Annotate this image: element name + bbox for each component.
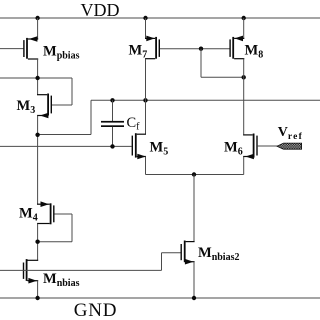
wire feedback net to M5 gate bbox=[0, 145, 132, 147]
svg-text:M3: M3 bbox=[17, 98, 36, 116]
wire GND rail bbox=[0, 297, 320, 299]
transistor M6 bbox=[243, 134, 258, 160]
svg-text:Mnbias: Mnbias bbox=[43, 271, 80, 289]
node M4 drain junction dot bbox=[35, 240, 39, 244]
svg-text:VDD: VDD bbox=[81, 0, 120, 20]
node Cf top junction bbox=[110, 98, 114, 102]
wire M7-M8 gate net bbox=[160, 48, 230, 50]
wire Mpbias source to node A bbox=[37, 59, 39, 95]
transistor M3 bbox=[37, 94, 52, 119]
node M7 drain junction bbox=[143, 98, 147, 102]
svg-text:M6: M6 bbox=[224, 140, 243, 158]
wire Mpbias gate stub bbox=[0, 48, 24, 50]
node VDD junction at M8 bbox=[242, 16, 246, 20]
capacitor Cf bbox=[101, 121, 124, 127]
svg-text:M5: M5 bbox=[150, 140, 169, 158]
wire M3 drain down to M4 bbox=[37, 116, 39, 205]
wire M4 source down bbox=[37, 224, 39, 261]
svg-text:M4: M4 bbox=[19, 206, 38, 224]
svg-text:Mpbias: Mpbias bbox=[43, 44, 80, 62]
node M8 drain junction bbox=[242, 75, 246, 79]
svg-text:M7: M7 bbox=[129, 43, 148, 61]
wire node A stub to left edge bbox=[0, 77, 38, 79]
node gate net junction bbox=[199, 47, 203, 51]
wire M8 drain from VDD bbox=[243, 18, 245, 38]
svg-text:Cf: Cf bbox=[127, 115, 141, 133]
transistor Mnbias bbox=[23, 259, 38, 283]
wire M6 drain down to tail bbox=[243, 157, 245, 175]
wire M4 gate bbox=[54, 213, 72, 215]
wire M7 source down bbox=[145, 59, 147, 134]
node M3 drain junction dot bbox=[35, 133, 39, 137]
wire Mnbias2 gate horizontal bbox=[162, 252, 181, 254]
svg-text:Mnbias2: Mnbias2 bbox=[198, 245, 239, 263]
wire M3 gate bbox=[52, 104, 72, 106]
wire M7 drain from VDD bbox=[145, 18, 147, 38]
wire Mpbias drain from VDD bbox=[37, 18, 39, 39]
wire gate net branch horizontal bbox=[201, 76, 244, 78]
node A junction dot bbox=[35, 76, 39, 80]
transistor M4 bbox=[37, 201, 55, 224]
transistor M8 bbox=[229, 36, 244, 59]
wire Mnbias2 gate vertical bbox=[161, 253, 163, 271]
wire riser to top net bbox=[90, 100, 92, 134]
wire M4 diode loop vertical bbox=[71, 214, 73, 242]
wire M3 drain node horizontal bbox=[38, 134, 91, 136]
node GND junction right bbox=[192, 296, 196, 300]
node Cf bottom junction bbox=[110, 144, 114, 148]
wire M5 drain down to tail bbox=[145, 157, 147, 175]
svg-text:Vref: Vref bbox=[278, 125, 303, 142]
transistor M7 bbox=[145, 36, 160, 59]
svg-text:GND: GND bbox=[74, 300, 118, 320]
terminal Vref hatched pad bbox=[277, 143, 302, 149]
wire tail net horizontal bbox=[146, 174, 244, 176]
transistor Mnbias2 bbox=[181, 241, 195, 265]
transistor Mpbias bbox=[23, 36, 38, 59]
wire M6 gate to Vref bbox=[258, 145, 279, 147]
node VDD junction at M7 bbox=[143, 16, 147, 20]
svg-text:M8: M8 bbox=[245, 43, 264, 61]
wire Cf bottom lead bbox=[112, 127, 114, 147]
wire M3 diode loop vertical bbox=[71, 78, 73, 105]
wire M4 diode loop bottom bbox=[38, 241, 72, 243]
wire bias net to left edge bbox=[0, 269, 162, 271]
wire VDD rail bbox=[0, 17, 320, 19]
transistor M5 bbox=[132, 133, 146, 159]
node tail junction dot bbox=[192, 172, 196, 176]
node VDD junction at Mpbias bbox=[35, 16, 39, 20]
wire Mnbias2 drain bbox=[193, 175, 195, 242]
wire gate net branch down bbox=[200, 49, 202, 78]
wire top net horizontal bbox=[91, 99, 320, 101]
wire Cf top lead bbox=[112, 100, 114, 121]
wire Mnbias2 source to GND bbox=[193, 262, 195, 298]
wire M8 source down to M6 bbox=[243, 59, 245, 135]
wire Mnbias source to GND bbox=[37, 281, 39, 298]
node GND junction left bbox=[35, 296, 39, 300]
wire M3 diode loop top bbox=[38, 77, 72, 79]
